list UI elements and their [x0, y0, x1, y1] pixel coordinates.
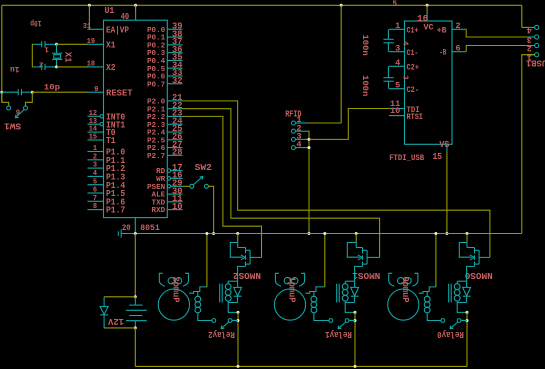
svg-text:4: 4 [296, 140, 301, 150]
label NMOS2 [233, 270, 261, 281]
svg-text:X1: X1 [106, 40, 116, 50]
wire VS to gnd rail [446, 152, 448, 234]
svg-text:USB1: USB1 [526, 57, 545, 68]
svg-text:19: 19 [87, 38, 95, 46]
wire RFID pin2-4 bus [308, 131, 309, 233]
wire USB pin4 lead [522, 26, 527, 28]
wire battery to bottom rail [134, 328, 136, 367]
svg-text:1u: 1u [10, 64, 20, 74]
svg-text:18: 18 [87, 61, 95, 69]
IC U1 8051 box [104, 20, 168, 217]
svg-text:X2: X2 [106, 63, 116, 73]
svg-text:C2-: C2- [407, 86, 420, 95]
node RFID pin3 junction [308, 138, 311, 141]
pin 20 stub [134, 218, 136, 234]
inductor pump2 coil [189, 287, 212, 321]
svg-text:SW2: SW2 [195, 163, 212, 173]
svg-text:10p: 10p [44, 83, 60, 93]
wire RFID pin3 to TDI [309, 109, 389, 140]
svg-text:1: 1 [93, 145, 97, 153]
label X1 [63, 52, 74, 63]
wire EA|VP drop [88, 5, 90, 29]
svg-text:100n: 100n [360, 75, 370, 96]
wire pump1 feed [324, 234, 326, 287]
wire SW1 left lead [2, 92, 9, 106]
svg-text:RD: RD [156, 168, 165, 176]
relay K2 contacts [212, 319, 238, 329]
pin 40 label [121, 12, 130, 22]
capacitor C-xtal-top [33, 41, 57, 47]
crystal pin 1 [44, 44, 49, 52]
relay K1 contacts [329, 319, 355, 329]
wire RESET net [32, 91, 87, 93]
svg-text:RXD: RXD [152, 207, 166, 215]
wire relay K2 common [237, 312, 239, 366]
wire GND rail [135, 233, 522, 235]
switch SW2 [190, 176, 209, 188]
node relay K0 contact-common junction [466, 319, 469, 322]
svg-text:3: 3 [401, 75, 409, 80]
node RFID gnd rail junction [308, 232, 311, 235]
svg-text:2: 2 [456, 21, 461, 31]
label 8051 [140, 225, 160, 233]
svg-text:RESET: RESET [106, 88, 133, 98]
node relay K1 bottom rail junction [354, 365, 357, 368]
wire NMOS2 drain to relay [238, 266, 246, 281]
wire USB pin1 to gnd [522, 55, 535, 234]
ground [118, 229, 135, 237]
wire RFID pin1 riser [340, 5, 342, 123]
svg-text:EA|VP: EA|VP [106, 25, 130, 35]
label RFID [285, 109, 301, 119]
motor Pump0 [388, 273, 419, 320]
pin 15 label [433, 152, 443, 162]
label Relay1 [325, 329, 352, 340]
svg-text:NMOS0: NMOS0 [465, 270, 493, 281]
relay coil K0 [449, 281, 471, 302]
label Pump1 [287, 277, 297, 304]
svg-text:VC: VC [424, 24, 434, 33]
U2 left pins [389, 21, 423, 122]
label Pump2 [171, 277, 181, 304]
svg-text:PSEN: PSEN [147, 184, 165, 192]
svg-text:31: 31 [83, 23, 91, 31]
U2 right pins [437, 21, 466, 58]
U1 right pins P0/P2/control [147, 22, 183, 216]
wire battery top [134, 234, 136, 297]
svg-text:15: 15 [89, 134, 97, 142]
svg-text:10: 10 [390, 106, 400, 116]
wire pump2 feed [206, 234, 208, 287]
label NMOS1 [352, 270, 380, 281]
svg-text:14: 14 [89, 126, 97, 134]
pin name VS [439, 140, 449, 150]
label U1 [105, 5, 115, 16]
svg-text:32: 32 [172, 76, 183, 86]
crystal pin 2 [39, 59, 43, 67]
capacitor 1u value [10, 64, 20, 74]
svg-text:TXD: TXD [152, 199, 166, 207]
svg-text:5: 5 [393, 0, 398, 9]
svg-text:20: 20 [122, 225, 131, 233]
capacitor C3 100n value [360, 34, 370, 55]
capacitor 10p value [44, 83, 60, 93]
node pump1 feed junction [323, 232, 326, 235]
node battery bottom junction [134, 326, 137, 329]
svg-text:8: 8 [93, 203, 97, 211]
value FTDI_USB [389, 153, 425, 163]
capacitor C3 [384, 29, 394, 51]
wire NMOS0 drain to relay [467, 266, 475, 281]
relay coil K2 [220, 281, 242, 302]
motor Pump1 [274, 273, 305, 320]
node VCC junction at pin40 [134, 4, 137, 7]
pin 40 stub [135, 13, 137, 20]
wire VCC right drop to USB pin4 [521, 5, 523, 27]
node pump2 feed junction [205, 232, 208, 235]
node reset rail left junction [0, 91, 3, 94]
wire RFID pin1 to VCC [308, 122, 342, 124]
pin 16 stub [426, 13, 428, 21]
wire relay K0 common [466, 312, 468, 366]
node xtal bottom junction [55, 65, 58, 68]
wire bottom rail [135, 365, 467, 367]
label Relay2 [208, 329, 235, 340]
connector RFID pins [291, 115, 307, 150]
wire relay K1 coil to common [345, 303, 355, 313]
wire NMOS1 drain to relay [355, 266, 363, 281]
node relay K1 coil-common junction [354, 311, 357, 314]
svg-text:1: 1 [44, 44, 49, 52]
label NMOS0 [465, 270, 493, 281]
wire P2.1 net [183, 109, 380, 258]
svg-text:3: 3 [93, 162, 97, 170]
node VCC junction at FTDI pin16 [426, 4, 429, 7]
svg-text:3: 3 [395, 44, 400, 54]
svg-text:FTDI_USB: FTDI_USB [389, 153, 425, 163]
motor Pump2 [158, 273, 189, 320]
switch SW1 pin 9 glyph [16, 110, 20, 118]
svg-text:0pmuP: 0pmuP [400, 277, 410, 304]
svg-text:P0.7: P0.7 [147, 81, 165, 89]
svg-text:C1+: C1+ [407, 27, 419, 36]
node battery top junction [134, 295, 137, 298]
crystal X1 [52, 44, 62, 67]
svg-text:4: 4 [400, 41, 408, 46]
wire -B to USB2 [466, 46, 527, 52]
svg-text:10: 10 [172, 202, 183, 212]
capacitor C-reset [2, 89, 33, 95]
node reset junction [31, 91, 34, 94]
node VCC junction at EA|VP drop [88, 4, 91, 7]
transistor NMOS0 [459, 232, 490, 266]
node relay K2 contact-common junction [237, 319, 240, 322]
wire relay K1 common [354, 312, 356, 366]
wire relay K2 coil to common [228, 303, 238, 313]
svg-text:Relay2: Relay2 [208, 329, 235, 340]
wire +B to USB3 [466, 29, 527, 37]
node RFID pin4 junction [308, 146, 311, 149]
capacitor C-xtal-bottom [33, 64, 57, 70]
svg-text:C1-: C1- [407, 49, 419, 58]
svg-text:NMOS1: NMOS1 [352, 270, 380, 281]
transistor NMOS2 [230, 232, 261, 266]
svg-text:9: 9 [94, 86, 98, 94]
svg-text:2pmuP: 2pmuP [171, 277, 181, 304]
svg-text:8051: 8051 [140, 225, 160, 233]
svg-text:15: 15 [433, 152, 443, 162]
pin 20 label [122, 225, 131, 233]
inductor pump0 coil [419, 287, 441, 321]
svg-text:Relay0: Relay0 [437, 329, 464, 340]
pin name VC [424, 24, 434, 33]
label Pump0 [400, 277, 410, 304]
wire FTDI pin16 drop [426, 5, 428, 13]
svg-text:12V: 12V [107, 316, 124, 327]
capacitor C4 [384, 66, 394, 88]
node relay K2 bottom rail junction [237, 365, 240, 368]
svg-text:28: 28 [172, 148, 183, 158]
transistor NMOS1 [347, 232, 379, 266]
wire pump0 feed [435, 234, 437, 287]
relay K0 contacts [441, 319, 467, 329]
wire xtal caps left link [31, 44, 34, 67]
svg-text:C2+: C2+ [407, 64, 420, 73]
inductor pump1 coil [305, 287, 329, 321]
svg-text:100n: 100n [360, 34, 370, 55]
pin 15 VS stub [446, 144, 448, 152]
wire P2.0 net [183, 101, 490, 258]
svg-text:U1: U1 [105, 5, 115, 16]
svg-text:40: 40 [121, 12, 130, 22]
svg-text:7: 7 [93, 195, 97, 203]
svg-text:16: 16 [417, 14, 428, 24]
label Relay0 [437, 329, 464, 340]
net label 5 [393, 0, 398, 9]
svg-text:P1.7: P1.7 [106, 206, 125, 216]
battery B1 [126, 297, 147, 328]
wire relay K0 coil to common [457, 303, 467, 313]
wire pin40 drop [135, 5, 137, 13]
wire battery-diode top link [104, 296, 135, 298]
wire VCC top rail [2, 4, 522, 6]
rotated glyph 3 [401, 75, 409, 80]
connector USB1 pins [527, 25, 539, 62]
node GND pin20 junction [134, 232, 137, 235]
node relay K0 coil-common junction [466, 311, 469, 314]
svg-text:9: 9 [16, 110, 20, 118]
node xtal top junction [55, 43, 58, 46]
svg-text:13: 13 [89, 118, 97, 126]
node relay K2 coil-common junction [237, 311, 240, 314]
pin 16 label [417, 14, 428, 24]
wire battery-diode bottom link [104, 327, 135, 329]
svg-text:5: 5 [93, 178, 97, 186]
svg-text:X1: X1 [63, 52, 74, 63]
svg-text:4: 4 [527, 25, 532, 35]
svg-text:10p: 10p [30, 18, 41, 28]
svg-text:SW1: SW1 [3, 121, 21, 131]
svg-text:+B: +B [437, 26, 447, 35]
IC U2 FTDI_USB box [405, 21, 453, 144]
svg-text:-B: -B [439, 49, 446, 58]
svg-text:2: 2 [527, 43, 532, 53]
wire P2.2 net [183, 116, 262, 257]
svg-text:6: 6 [93, 187, 97, 195]
svg-text:VS: VS [439, 140, 449, 150]
wire SW2 to gnd rail [208, 186, 213, 233]
label 12V [107, 316, 124, 327]
wire X1 net [57, 43, 88, 45]
svg-text:5: 5 [395, 81, 400, 91]
svg-text:P2.7: P2.7 [147, 153, 165, 161]
svg-text:2: 2 [93, 153, 97, 161]
capacitor 10p (XTAL top) value [30, 18, 41, 28]
label USB1 [526, 57, 545, 68]
svg-text:1pmuP: 1pmuP [287, 277, 297, 304]
wire PSEN to SW2 [183, 185, 190, 187]
label SW1 [3, 121, 21, 131]
node SW2 rail junction [212, 232, 215, 235]
label SW2 [195, 163, 212, 173]
relay coil K1 [337, 281, 359, 302]
switch SW1 [7, 106, 28, 118]
svg-text:4: 4 [93, 170, 97, 178]
svg-text:1: 1 [395, 21, 400, 31]
U1 left pins P1/control [83, 23, 133, 216]
diode D4 [100, 297, 108, 328]
svg-text:Relay1: Relay1 [325, 329, 352, 340]
svg-text:WR: WR [156, 176, 166, 184]
svg-text:12: 12 [89, 110, 97, 118]
wire X2 net [57, 66, 88, 68]
wire SW1 right lead [26, 92, 33, 106]
node pump0 feed junction [434, 232, 437, 235]
svg-text:RTSI: RTSI [407, 113, 424, 122]
node VCC junction at RFID1 riser [340, 4, 343, 7]
capacitor C4 100n value [360, 75, 370, 96]
node relay K1 contact-common junction [354, 319, 357, 322]
wire VCC left drop [1, 5, 3, 102]
svg-text:4: 4 [395, 58, 400, 68]
svg-text:6: 6 [456, 44, 461, 54]
rotated glyph 4 [400, 41, 408, 46]
node VS rail junction [445, 232, 448, 235]
svg-text:T1: T1 [106, 136, 116, 146]
